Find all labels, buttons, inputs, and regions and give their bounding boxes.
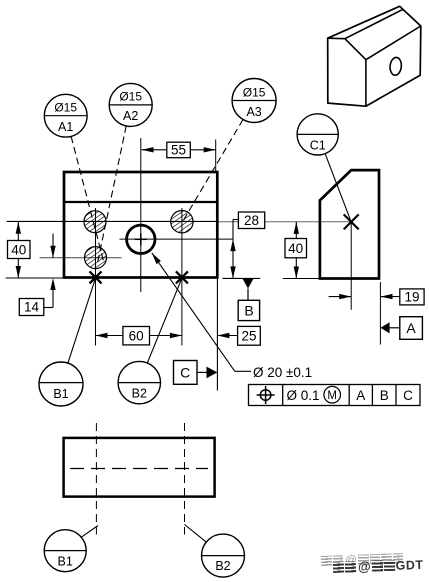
datum target area A3 (hatched circle) bbox=[171, 211, 193, 233]
svg-text:A: A bbox=[406, 320, 416, 336]
side view outline bbox=[320, 170, 379, 278]
balloon A2 bbox=[109, 83, 152, 126]
svg-text:19: 19 bbox=[404, 290, 419, 305]
datum target B1 X mark bbox=[90, 271, 102, 283]
svg-text:A2: A2 bbox=[123, 109, 138, 123]
dimension 19 bbox=[329, 289, 424, 305]
isometric end face top edge bbox=[328, 37, 345, 40]
wire side view right edge extension bbox=[379, 282, 381, 345]
balloon B2 lower bbox=[202, 534, 245, 577]
wire 55 extension line right bbox=[215, 140, 217, 172]
svg-text:60: 60 bbox=[129, 328, 144, 343]
dimension 60 bbox=[96, 327, 182, 345]
wire row line upper (through A targets, front+side) bbox=[7, 220, 352, 222]
balloon B1 upper bbox=[39, 362, 83, 406]
isometric hole ellipse bbox=[389, 57, 402, 76]
svg-text:14: 14 bbox=[24, 300, 40, 315]
isometric view outline bbox=[328, 6, 421, 106]
svg-text:B2: B2 bbox=[132, 386, 147, 400]
leader B2 lower bbox=[185, 525, 206, 542]
wire left target column line B1 bbox=[95, 208, 97, 346]
svg-text:M: M bbox=[327, 390, 337, 402]
svg-text:C: C bbox=[403, 388, 413, 403]
dimension 14 bbox=[19, 234, 55, 316]
leader dashed A2 bbox=[98, 126, 127, 263]
bottom view left dashed target line bbox=[95, 423, 97, 535]
svg-text:Ø15: Ø15 bbox=[243, 85, 266, 99]
svg-text:Ø15: Ø15 bbox=[119, 90, 142, 104]
leader B1 bbox=[68, 278, 96, 363]
wire hole vertical centerline bbox=[140, 138, 142, 292]
wire side view bottom extension bbox=[283, 278, 320, 280]
balloon A1 bbox=[44, 94, 87, 137]
svg-text:Ø 0.1: Ø 0.1 bbox=[287, 388, 320, 403]
isometric chamfer bottom edge (along axis) bbox=[345, 9, 403, 38]
leader dashed A1 bbox=[71, 136, 104, 263]
side view target C1 X mark bbox=[344, 214, 359, 229]
balloon B1 lower bbox=[44, 530, 86, 572]
svg-text:A3: A3 bbox=[246, 105, 261, 119]
svg-text:25: 25 bbox=[241, 328, 256, 343]
svg-text:A1: A1 bbox=[58, 120, 73, 134]
dimension 40 left bbox=[8, 222, 31, 278]
datum target B2 X mark bbox=[176, 271, 188, 283]
svg-text:Ø 20 ±0.1: Ø 20 ±0.1 bbox=[253, 365, 312, 380]
svg-text:Ø15: Ø15 bbox=[54, 101, 77, 115]
dimension 40 right (side view) bbox=[285, 222, 307, 279]
svg-text:40: 40 bbox=[288, 241, 303, 256]
wire vertical line below X (side view) bbox=[350, 222, 352, 310]
wire hole horizontal centerline bbox=[120, 238, 234, 240]
datum feature symbol C bbox=[174, 361, 218, 385]
svg-text:B2: B2 bbox=[215, 559, 230, 573]
datum feature symbol A bbox=[381, 317, 423, 340]
front view outline bbox=[64, 172, 217, 278]
svg-text:B: B bbox=[380, 388, 389, 403]
datum target area A2 (hatched circle) bbox=[85, 247, 107, 269]
hole center cross bbox=[135, 233, 147, 245]
wire row line lower (through A2 target) bbox=[40, 257, 122, 259]
svg-text:B1: B1 bbox=[53, 387, 68, 401]
isometric chamfer edge on end face bbox=[345, 39, 366, 60]
bottom view right dashed target line bbox=[184, 423, 186, 535]
datum target area A1 (hatched circle) bbox=[84, 211, 106, 233]
svg-text:55: 55 bbox=[171, 142, 186, 157]
svg-text:C: C bbox=[180, 365, 190, 381]
front view chamfer edge line bbox=[64, 201, 217, 203]
wire right edge extension down (datum C line) bbox=[216, 279, 218, 391]
isometric front face top edge bbox=[366, 26, 421, 60]
datum feature symbol B bbox=[238, 279, 259, 321]
leader dashed A3 bbox=[183, 120, 243, 222]
watermark zhihu (gray) bbox=[321, 551, 404, 568]
leader B2 bbox=[147, 278, 182, 363]
isometric front vertical edge bbox=[365, 60, 367, 106]
svg-text:B: B bbox=[244, 303, 253, 319]
bottom view horizontal dashed centerline bbox=[70, 468, 208, 470]
dimension 55 bbox=[142, 142, 216, 158]
bottom view outline bbox=[64, 438, 215, 497]
dimension 28 bbox=[230, 212, 264, 278]
leader to hole with arrow (for D20 callout) bbox=[152, 253, 251, 371]
leader B1 lower bbox=[81, 526, 98, 538]
svg-text:40: 40 bbox=[11, 242, 26, 257]
feature control frame bbox=[249, 385, 421, 406]
dimension 25 bbox=[217, 326, 260, 345]
wire bottom edge extension left bbox=[6, 277, 64, 279]
balloon A3 bbox=[232, 79, 276, 123]
hole D20 bbox=[127, 225, 155, 253]
wire right target column line B2 bbox=[181, 208, 183, 346]
balloon B2 upper bbox=[118, 361, 160, 403]
svg-text:B1: B1 bbox=[58, 554, 73, 568]
svg-text:C1: C1 bbox=[310, 138, 326, 152]
svg-text:28: 28 bbox=[244, 213, 259, 228]
leader C1 bbox=[325, 154, 351, 222]
svg-text:A: A bbox=[356, 388, 365, 403]
watermark toutiao (dark) bbox=[333, 557, 424, 575]
balloon C1 bbox=[297, 114, 338, 155]
wire bottom edge extension right bbox=[223, 277, 261, 279]
